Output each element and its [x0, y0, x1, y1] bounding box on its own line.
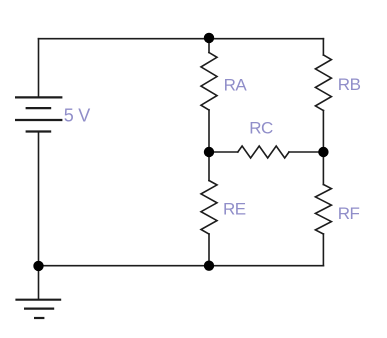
node at bottom rail and RE [204, 261, 214, 271]
resistor RE [201, 181, 217, 235]
wire bottom rail [39, 265, 324, 267]
wire top rail [39, 38, 324, 40]
svg-text:RE: RE [223, 200, 246, 219]
wire RE bottom lead [208, 234, 210, 266]
wire RF bottom lead [322, 234, 324, 266]
svg-text:RA: RA [224, 76, 248, 95]
wire RB top lead [322, 39, 324, 55]
svg-text:RC: RC [249, 119, 273, 138]
wire ground lead [38, 266, 40, 300]
node at top rail and RA [204, 33, 214, 43]
wire RA bottom lead to node [208, 110, 210, 152]
wire RE top lead [208, 152, 210, 181]
svg-text:5 V: 5 V [64, 106, 90, 126]
resistor RB [315, 55, 331, 111]
resistor RA [201, 53, 217, 111]
node at RB RF RC junction [318, 147, 328, 157]
resistor RF [315, 185, 331, 235]
wire RC right lead [289, 151, 323, 153]
svg-text:RF: RF [338, 204, 360, 223]
svg-text:RB: RB [338, 75, 361, 94]
battery B1 5V [15, 97, 62, 131]
wire battery positive lead up left side [38, 39, 40, 98]
node at bottom rail and ground [33, 261, 43, 271]
wire battery negative lead down left side [38, 132, 40, 266]
ground [15, 300, 61, 318]
wire RA top lead [208, 39, 210, 53]
wire RB bottom lead to node [322, 111, 324, 153]
resistor RC [238, 146, 289, 158]
wire RF top lead [322, 152, 324, 185]
node at RA RE RC junction [204, 147, 214, 157]
wire RC left lead [209, 151, 238, 153]
